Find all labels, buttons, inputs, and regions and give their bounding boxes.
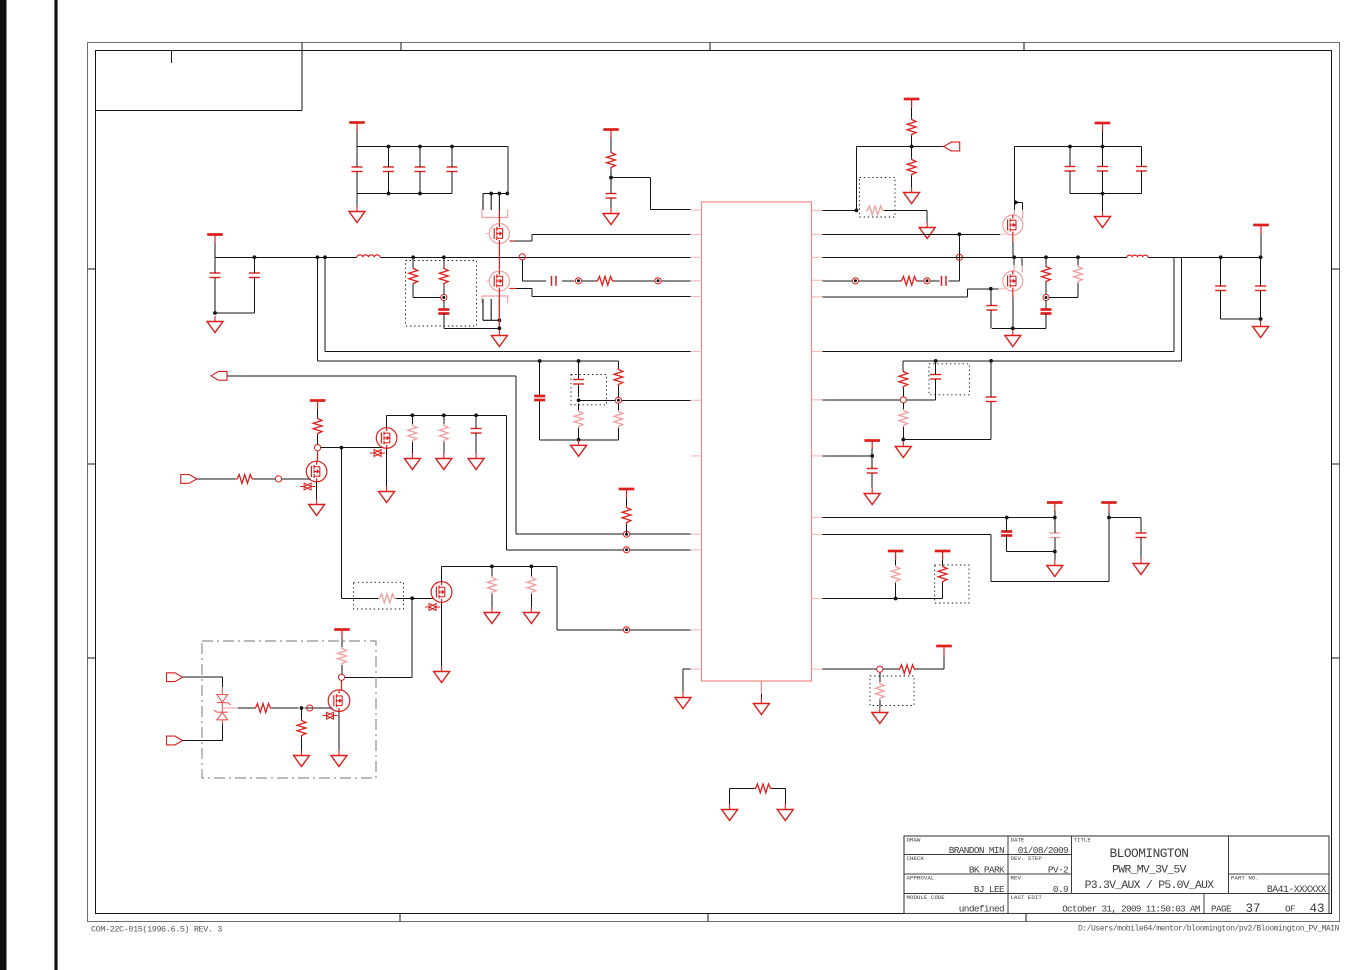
ground G25 xyxy=(1047,560,1063,577)
transistor Q1 (MOSFET) xyxy=(489,224,509,244)
ground G22 xyxy=(753,698,769,715)
power symbol P1 left rail xyxy=(207,235,223,244)
node N15 xyxy=(307,705,313,711)
resistor R2 xyxy=(409,267,418,285)
wire QC source black xyxy=(1012,242,1014,257)
capacitor C7 xyxy=(552,276,557,286)
inductor L2 xyxy=(1127,255,1148,257)
power symbol P4 xyxy=(904,99,920,108)
wire C8 bottom lead xyxy=(443,314,445,329)
resistor R9 xyxy=(1042,265,1051,283)
wire IC gnd bottom xyxy=(760,694,762,698)
wire R17 leads xyxy=(411,415,413,453)
wire pin399 wire xyxy=(823,399,901,401)
wire C11 leads xyxy=(1102,147,1104,194)
wire R18 leads xyxy=(443,415,445,453)
capacitor C17 xyxy=(1255,286,1266,291)
wire QB out xyxy=(516,289,691,297)
ground G8 xyxy=(1005,330,1021,347)
wire R4 to junction xyxy=(610,169,612,178)
ground G28 xyxy=(722,804,738,821)
svg-text:BLOOMINGTON: BLOOMINGTON xyxy=(1110,846,1189,861)
wire left rail bottom link xyxy=(215,312,254,314)
wire QD gate stub xyxy=(999,288,1006,290)
power symbol P6 xyxy=(1253,225,1269,234)
wire P9 stem xyxy=(341,638,343,647)
wire P3 stem xyxy=(610,138,612,151)
wire net to IC pin550 xyxy=(506,415,690,550)
wire riser net V2 xyxy=(903,257,1182,361)
wire fb node wire xyxy=(579,399,691,401)
connector CN2 (jumper comb) xyxy=(482,296,508,322)
svg-text:MODULE CODE: MODULE CODE xyxy=(907,894,946,901)
wire C6 leads xyxy=(451,147,453,194)
wire P5 stem xyxy=(1102,131,1104,147)
wire pin669 wire xyxy=(823,668,877,670)
power symbol P9 xyxy=(334,630,350,639)
wire C8 top lead xyxy=(443,301,445,310)
svg-text:43: 43 xyxy=(1309,902,1324,916)
capacitor C11 xyxy=(1097,167,1108,172)
wire R29 chain xyxy=(883,654,944,669)
wire QC gate stub xyxy=(1000,233,1007,235)
resistor R10 xyxy=(1074,265,1083,283)
wire QC gate wire xyxy=(823,233,1001,235)
IC pin stubs xyxy=(691,210,823,694)
capacitor C12 xyxy=(1136,167,1147,172)
wire P8 stem xyxy=(317,409,319,417)
resistor R15 xyxy=(313,417,322,435)
svg-text:OF: OF xyxy=(1285,903,1295,914)
node N9 xyxy=(623,531,629,537)
svg-text:BK PARK: BK PARK xyxy=(969,865,1005,876)
wire cap bank stem xyxy=(356,131,358,147)
wire QD source lead xyxy=(1012,291,1014,297)
resistor R11 xyxy=(614,368,623,386)
power symbol P8 xyxy=(310,401,326,410)
wire right bus xyxy=(823,256,1261,258)
power symbol P7 xyxy=(619,489,635,498)
resistor R4 xyxy=(607,151,616,169)
wire P4 stem xyxy=(911,108,913,118)
wire input1 wire xyxy=(183,677,223,687)
wire IC gnd left xyxy=(683,669,691,692)
inductor L1 xyxy=(357,255,380,257)
svg-text:BRANDON MIN: BRANDON MIN xyxy=(949,845,1004,856)
wire QF drain lead xyxy=(386,415,388,427)
ground G14 xyxy=(436,453,452,470)
capacitor C1 xyxy=(210,273,221,278)
node N13 xyxy=(623,627,629,633)
node N11 xyxy=(275,476,281,482)
wire QH drain drop xyxy=(345,598,413,677)
capacitor C10 xyxy=(1065,167,1076,172)
svg-text:CHECK: CHECK xyxy=(907,855,925,862)
wire flag net xyxy=(227,376,691,534)
wire R9 top lead xyxy=(1045,257,1047,265)
capacitor C8 xyxy=(438,310,449,314)
wire C9 leads xyxy=(610,178,612,209)
resistor R29 xyxy=(898,665,916,674)
wire net to IC pin630 xyxy=(557,566,690,629)
wire QB source gnd link xyxy=(444,327,500,329)
off-page connector PG2 xyxy=(211,371,227,380)
wire R2 bottom xyxy=(413,285,441,298)
resistor R3 xyxy=(439,267,448,285)
transistor Q4 (MOSFET) xyxy=(1003,271,1023,291)
wire QC drain red leads xyxy=(1014,210,1022,219)
wire pin210 feed xyxy=(611,178,691,210)
wire R31 links xyxy=(730,788,786,804)
wire C17 leads xyxy=(1260,257,1262,319)
wire R9 bottom lead xyxy=(1045,283,1047,294)
capacitor C24 xyxy=(1001,532,1012,536)
node N2 xyxy=(575,278,581,284)
wire right bank gnd stem xyxy=(1102,194,1104,211)
wire QG drain lead xyxy=(441,566,443,581)
ground G27 xyxy=(872,707,888,724)
node crossover ring xyxy=(956,254,962,260)
dashed option box B6 xyxy=(929,364,969,395)
ground G20 xyxy=(331,750,347,767)
wire pin598 wire xyxy=(823,598,943,600)
resistor R12 xyxy=(574,410,583,428)
resistor R13 xyxy=(614,410,623,428)
capacitor C15 xyxy=(1041,310,1052,314)
node QC drain arrow xyxy=(1015,200,1019,205)
resistor R28 xyxy=(938,565,947,583)
resistor R19 xyxy=(378,594,396,603)
module outline box B5 xyxy=(202,641,376,778)
power symbol P3 xyxy=(603,130,619,139)
wire cap bank right leg xyxy=(507,147,509,194)
ground G2 xyxy=(349,206,365,223)
wire R10 top lead xyxy=(1077,257,1079,265)
wire P7 stem xyxy=(626,498,628,506)
capacitor C4 xyxy=(383,167,394,172)
svg-text:BJ LEE: BJ LEE xyxy=(974,884,1005,895)
wire pin210R wire xyxy=(823,209,857,211)
ground G4 xyxy=(603,208,619,225)
wire C5 leads xyxy=(419,147,421,194)
svg-text:REV: REV xyxy=(1011,875,1022,882)
node left bus junctions xyxy=(253,255,257,259)
off-page connector PG1 xyxy=(944,142,960,151)
node N8 xyxy=(615,397,621,403)
wire QE source xyxy=(316,482,318,499)
wire QG gate chain xyxy=(341,597,434,599)
wire cap bank bottom bus xyxy=(357,193,452,195)
resistor R21 xyxy=(527,576,536,594)
capacitor C19 xyxy=(573,380,584,385)
capacitor C22 xyxy=(930,375,941,380)
wire C14 leads xyxy=(990,289,992,329)
title block labels xyxy=(907,837,1259,902)
wire C25 leads xyxy=(1054,518,1056,552)
wire C23 leads xyxy=(871,456,873,488)
power symbol P5 xyxy=(1095,123,1111,132)
resistor R16 xyxy=(236,475,254,484)
resistor R6 xyxy=(907,158,916,176)
wire C1 leads xyxy=(214,257,216,313)
svg-text:01/08/2009: 01/08/2009 xyxy=(1018,845,1068,856)
wire pin456 wire xyxy=(823,455,873,457)
wire C26 gnd lead xyxy=(1140,538,1142,559)
ground G16 xyxy=(434,666,450,683)
wire C15 bottom lead xyxy=(1045,314,1047,329)
wire C4 leads xyxy=(388,147,390,194)
wire P11 stem xyxy=(1054,511,1056,518)
svg-text:TITLE: TITLE xyxy=(1074,837,1092,844)
wire P10 stem xyxy=(871,449,873,456)
power symbol P15 xyxy=(936,646,952,655)
transistor Q8 (MOSFET) xyxy=(323,690,350,719)
ground G24 xyxy=(864,488,880,505)
resistor R30 xyxy=(875,682,884,700)
wire R6 leads xyxy=(911,147,913,188)
wire C18 branch xyxy=(539,361,541,440)
wire flag feed xyxy=(912,146,944,148)
ground G23 xyxy=(895,441,911,458)
wire mid cluster bottom bus xyxy=(540,439,619,441)
capacitor C2 xyxy=(249,273,260,278)
diode D1 TVS pair xyxy=(214,687,231,724)
transistor Q3 (MOSFET) xyxy=(1003,215,1023,235)
wire QF gate drop xyxy=(340,448,342,599)
wire R30 leads xyxy=(879,672,881,707)
svg-text:October 31, 2009 11:50:03 AM: October 31, 2009 11:50:03 AM xyxy=(1062,903,1200,914)
svg-text:BA41-XXXXXX: BA41-XXXXXX xyxy=(1267,884,1327,895)
wire QB out red xyxy=(509,288,516,290)
wire QC drain feed xyxy=(1014,147,1022,210)
resistor R5 xyxy=(907,118,916,136)
cap bank junctions xyxy=(387,145,391,149)
wire right rail bottom link xyxy=(1221,318,1261,320)
svg-text:0.9: 0.9 xyxy=(1053,884,1068,895)
wire C22 leads xyxy=(906,361,935,400)
capacitor C14 xyxy=(986,306,997,311)
wire QH source xyxy=(338,712,340,751)
power symbol P14 xyxy=(935,551,951,560)
wire gate RC chain xyxy=(522,260,690,281)
wire cluster bottom xyxy=(903,402,991,440)
wire right bank top bus xyxy=(1015,146,1142,148)
wire rail 534 xyxy=(823,518,1110,582)
node N10 xyxy=(315,445,321,451)
capacitor C13 xyxy=(942,276,947,286)
wire R3 bottom lead xyxy=(443,285,445,294)
page edge bar xyxy=(0,0,7,970)
wire QF source xyxy=(386,448,388,486)
ground G13 xyxy=(404,453,420,470)
resistor R22 xyxy=(338,647,347,665)
svg-text:LAST EDIT: LAST EDIT xyxy=(1011,894,1043,901)
wire QD gate chain xyxy=(823,234,960,280)
off-page connector PG4 xyxy=(167,673,183,682)
wire QH gate red lead xyxy=(222,707,238,709)
wire C3 leads xyxy=(356,147,358,194)
node N1 xyxy=(519,254,525,260)
title box top-left xyxy=(96,43,303,111)
ground G15 xyxy=(468,453,484,470)
svg-text:DRAW: DRAW xyxy=(907,837,921,844)
wire gnd stem 517 xyxy=(1054,552,1056,561)
power symbol P12 xyxy=(1101,503,1117,512)
power symbol P11 xyxy=(1047,503,1063,512)
ground G17 xyxy=(484,607,500,624)
capacitor C16 xyxy=(1215,286,1226,291)
wire cap bank gnd stem xyxy=(356,194,358,207)
resistor R26 xyxy=(899,409,908,427)
ground G19 xyxy=(294,750,310,767)
wire QA-QB channel xyxy=(498,244,500,272)
capacitor C23 xyxy=(867,469,878,474)
wire QF top bus xyxy=(387,414,507,416)
wire QG top bus xyxy=(442,565,557,567)
wire C21 top lead xyxy=(990,361,992,397)
ground G26 xyxy=(1133,558,1149,575)
dashed option box B3 xyxy=(571,375,607,405)
wire rail 517 xyxy=(823,517,1055,519)
resistor R31 xyxy=(754,784,772,793)
power symbol P10 xyxy=(864,441,880,450)
wire R2 top lead xyxy=(412,257,414,267)
wire R21 leads xyxy=(530,566,532,607)
wire C24 leads xyxy=(1007,518,1055,552)
wire R5 bottom lead xyxy=(911,136,913,147)
resistor R17 xyxy=(408,424,417,442)
wire R12 leads xyxy=(578,403,580,439)
capacitor C18 xyxy=(534,396,545,400)
capacitor C5 xyxy=(415,167,426,172)
svg-text:undefined: undefined xyxy=(959,903,1004,914)
wire R25 bottom lead xyxy=(902,388,904,397)
capacitor C3 xyxy=(352,167,363,172)
wire R3 top lead xyxy=(443,257,445,267)
power symbol P2 xyxy=(349,123,365,132)
wire QA drain lead xyxy=(498,210,500,224)
ground G10 xyxy=(571,440,587,457)
wire net V2 left xyxy=(317,257,618,361)
ground G21 xyxy=(675,692,691,709)
wire C19 leads xyxy=(578,361,580,397)
ground G7 xyxy=(1095,211,1111,228)
dashed option box B7 xyxy=(935,565,969,603)
wire R27 leads xyxy=(895,560,897,599)
ground G1 xyxy=(207,316,223,333)
wire C10 leads xyxy=(1069,147,1071,194)
ground G11 xyxy=(309,499,325,516)
wire QD bottom bus xyxy=(992,327,1046,329)
ground G29 xyxy=(777,804,793,821)
off-page connector PG5 xyxy=(167,736,183,745)
wire net V1 left xyxy=(325,257,691,351)
svg-text:PV-2: PV-2 xyxy=(1048,865,1068,876)
power symbol P13 xyxy=(888,551,904,560)
resistor R25 xyxy=(899,370,908,388)
wire QB source chain xyxy=(498,291,500,328)
wire C16 leads xyxy=(1220,257,1222,319)
capacitor C20 xyxy=(471,429,482,434)
dashed option box B1 xyxy=(406,261,477,327)
wire riser net V1 xyxy=(823,257,1175,351)
node N12 xyxy=(623,547,629,553)
capacitor C6 xyxy=(447,167,458,172)
resistor R7 xyxy=(866,206,884,215)
ground G6 xyxy=(919,222,935,239)
resistor R1 xyxy=(596,276,614,285)
node N17 xyxy=(877,666,883,672)
ground G3 xyxy=(491,330,507,347)
wire QD drain red leads xyxy=(1014,265,1022,273)
svg-text:37: 37 xyxy=(1245,902,1260,916)
wire QH drain lead xyxy=(341,680,343,690)
transistor Q7 (MOSFET) xyxy=(425,582,452,611)
node N16 xyxy=(900,397,906,403)
wire QF gate link xyxy=(321,447,383,449)
title block values xyxy=(949,845,1327,916)
wire up to net A xyxy=(856,147,911,211)
wire QD source chain xyxy=(1012,297,1014,328)
wire QC source lead xyxy=(1012,235,1014,242)
svg-text:PWR_MV_3V_5V: PWR_MV_3V_5V xyxy=(1112,865,1186,877)
wire R26 leads xyxy=(902,403,904,440)
wire QE drain lead xyxy=(317,451,319,462)
wire right bank bottom bus xyxy=(1070,193,1142,195)
off-page connector PG3 xyxy=(181,475,197,484)
wire R15 bottom lead xyxy=(317,435,319,445)
wire R28 leads xyxy=(942,560,944,599)
resistor R23 xyxy=(254,704,272,713)
resistor R24 xyxy=(297,719,306,737)
node N5 xyxy=(852,278,858,284)
title block xyxy=(904,836,1329,914)
wire R11 leads xyxy=(617,361,619,397)
wire QE gate chain xyxy=(197,478,311,480)
ground G9 xyxy=(1253,321,1269,338)
wire input2 wire xyxy=(183,724,223,741)
wire C20 leads xyxy=(475,415,477,453)
node N7 xyxy=(1043,294,1049,300)
dashed option box B2 xyxy=(860,177,895,217)
ground G5 xyxy=(904,187,920,204)
wire QG source xyxy=(441,602,443,666)
svg-text:DATE: DATE xyxy=(1011,837,1025,844)
wire C2 leads xyxy=(253,257,255,313)
wire C15 top lead xyxy=(1045,301,1047,310)
wire R7 out xyxy=(884,210,927,222)
dashed option box B4 xyxy=(354,582,404,609)
wire QH gate chain xyxy=(238,707,333,709)
svg-text:DEV. STEP: DEV. STEP xyxy=(1011,855,1043,862)
capacitor C9 xyxy=(606,194,617,199)
node N3 xyxy=(655,278,661,284)
wire QD drain twin xyxy=(1014,257,1022,265)
wire R14 bottom lead xyxy=(626,524,628,534)
node N4 xyxy=(441,294,447,300)
resistor R20 xyxy=(488,576,497,594)
wire P6 stem xyxy=(1260,234,1262,257)
wire C12 leads xyxy=(1141,147,1143,194)
capacitor C26 xyxy=(1136,533,1147,538)
transistor Q5 (MOSFET) xyxy=(300,461,327,490)
svg-text:D:/Users/mobile64/mentor/bloom: D:/Users/mobile64/mentor/bloomington/pv2… xyxy=(1078,925,1340,934)
svg-text:COM-22C-015(1996.6.5) REV. 3: COM-22C-015(1996.6.5) REV. 3 xyxy=(91,925,222,935)
transistor Q2 (MOSFET) xyxy=(489,271,509,291)
resistor R14 xyxy=(622,506,631,524)
svg-text:PART NO.: PART NO. xyxy=(1231,875,1259,882)
node N14 xyxy=(338,674,344,680)
